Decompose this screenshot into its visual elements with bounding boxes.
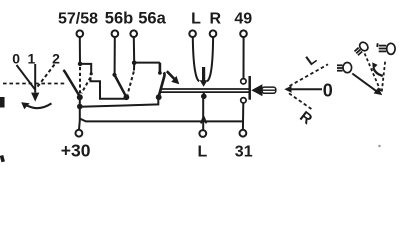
- svg-text:57/58: 57/58: [58, 11, 98, 28]
- svg-text:0: 0: [12, 51, 20, 67]
- svg-text:31: 31: [235, 143, 253, 160]
- svg-text:1: 1: [28, 51, 36, 67]
- svg-text:49: 49: [234, 11, 252, 28]
- svg-text:2: 2: [52, 51, 60, 67]
- svg-text:56b: 56b: [105, 10, 133, 28]
- svg-text:+30: +30: [61, 140, 91, 160]
- svg-text:56a: 56a: [138, 10, 166, 28]
- svg-text:L: L: [191, 11, 201, 28]
- svg-text:L: L: [303, 51, 320, 69]
- svg-text:R: R: [210, 11, 222, 28]
- svg-text:L: L: [198, 143, 208, 160]
- svg-text:0: 0: [323, 81, 333, 101]
- svg-text:R: R: [296, 108, 315, 128]
